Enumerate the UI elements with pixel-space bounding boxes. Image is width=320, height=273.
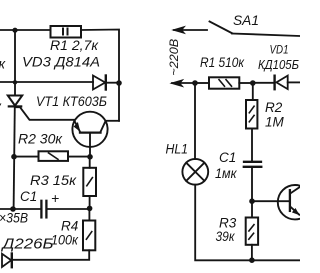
svg-text:VD1: VD1 bbox=[270, 43, 289, 57]
svg-text:VT1 КТ603Б: VT1 КТ603Б bbox=[36, 93, 107, 109]
svg-text:R1 510к: R1 510к bbox=[200, 55, 245, 70]
svg-text:HL1: HL1 bbox=[166, 142, 189, 157]
svg-text:Д226Б: Д226Б bbox=[0, 237, 53, 253]
svg-text:R4: R4 bbox=[61, 219, 78, 234]
svg-text:R3 15к: R3 15к bbox=[30, 173, 77, 188]
svg-text:1М: 1М bbox=[265, 114, 285, 129]
svg-text:КД105Б: КД105Б bbox=[258, 58, 299, 72]
svg-text:VD3 Д814А: VD3 Д814А bbox=[22, 54, 100, 70]
svg-text:39к: 39к bbox=[216, 229, 236, 244]
svg-text:R2: R2 bbox=[265, 100, 283, 115]
svg-text:×35В: ×35В bbox=[0, 211, 28, 226]
svg-text:R2 30к: R2 30к bbox=[18, 132, 63, 147]
svg-text:100к: 100к bbox=[51, 233, 79, 248]
svg-text:~220В: ~220В bbox=[167, 39, 181, 76]
svg-text:С1: С1 bbox=[20, 189, 37, 204]
svg-text:SA1: SA1 bbox=[233, 13, 259, 28]
svg-text:С1: С1 bbox=[219, 150, 236, 165]
svg-text:1мк: 1мк bbox=[215, 166, 237, 181]
svg-text:+: + bbox=[51, 190, 59, 206]
svg-text:R1 2,7к: R1 2,7к bbox=[50, 38, 99, 53]
